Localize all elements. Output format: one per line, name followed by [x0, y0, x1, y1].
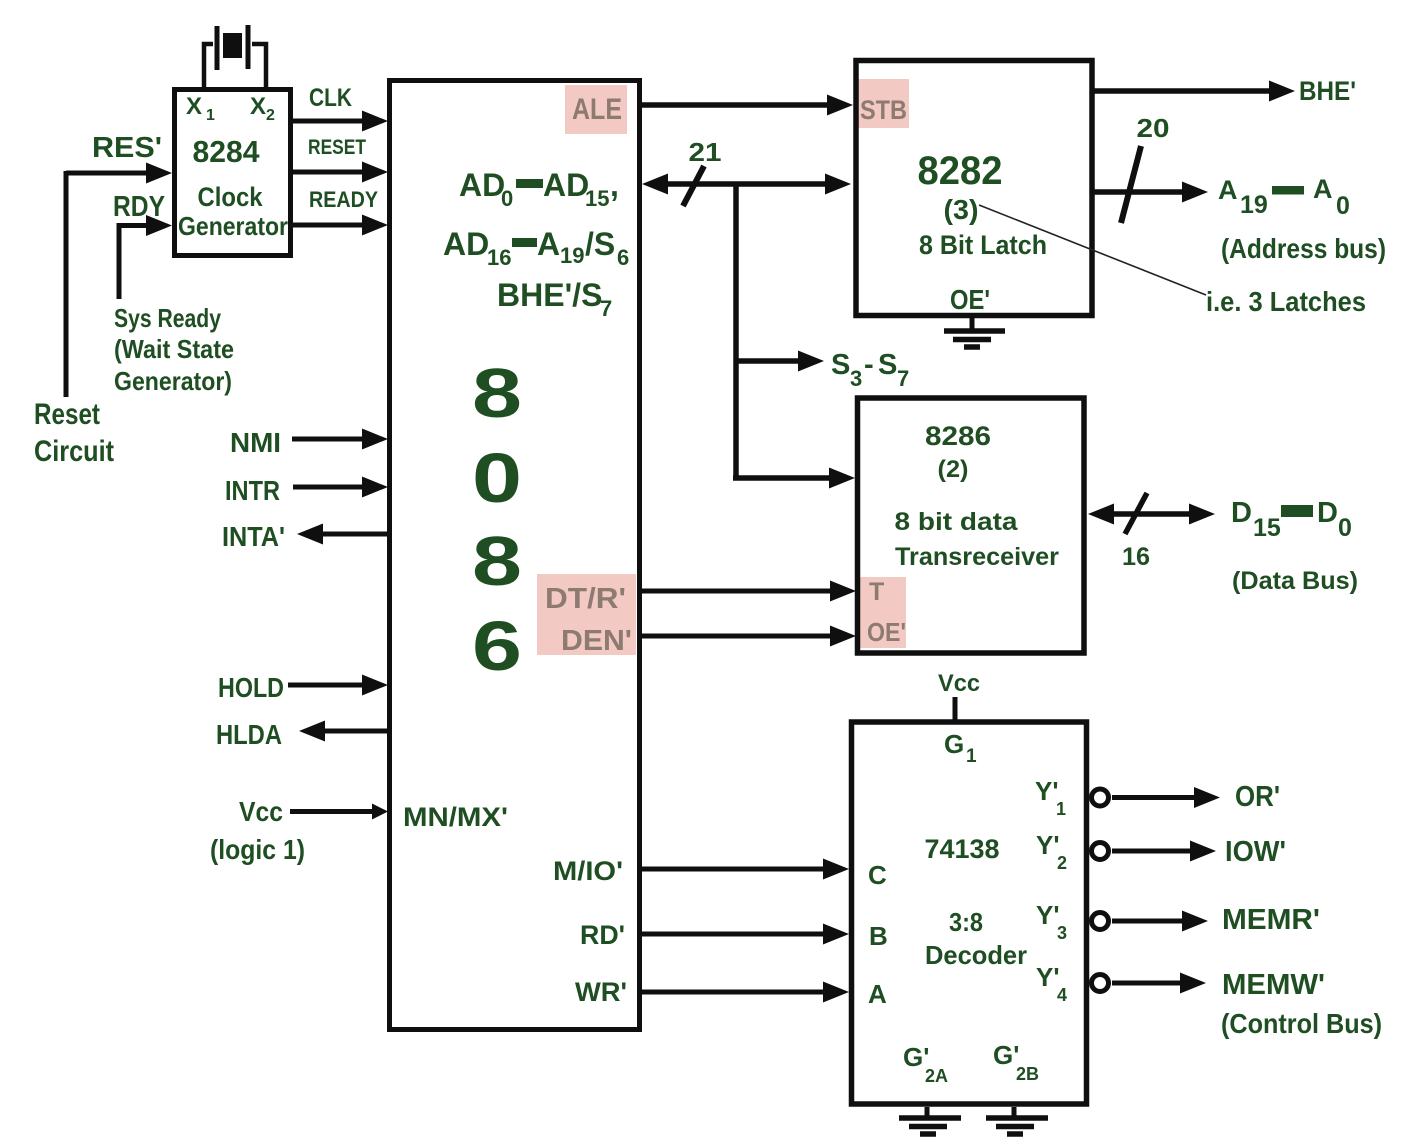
- label (Address bus): [1221, 233, 1386, 264]
- svg-text:2A: 2A: [925, 1066, 948, 1086]
- crystal Y1 right lead wire: [252, 44, 266, 89]
- pin label Y'2: [1036, 830, 1067, 873]
- bubble Y1: [1092, 789, 1109, 806]
- svg-text:OE': OE': [950, 284, 990, 315]
- svg-text:0: 0: [472, 439, 522, 517]
- label (Control Bus): [1221, 1008, 1382, 1039]
- svg-text:-: -: [864, 349, 874, 381]
- label 3:8: [949, 907, 983, 937]
- wire Y2 to IOW': [1112, 841, 1216, 862]
- svg-text:8 Bit Latch: 8 Bit Latch: [919, 230, 1047, 260]
- svg-text:3: 3: [850, 366, 862, 391]
- svg-text:7: 7: [600, 296, 612, 321]
- label digit 0: [472, 439, 522, 517]
- label digit 8b: [472, 522, 522, 600]
- svg-text:,: ,: [610, 167, 619, 203]
- svg-text:MEMW': MEMW': [1222, 969, 1325, 1001]
- label D15-D0: [1231, 497, 1352, 542]
- svg-text:RESET: RESET: [308, 136, 366, 159]
- svg-text:8282: 8282: [918, 149, 1003, 193]
- svg-text:A: A: [1313, 174, 1333, 204]
- pin label B: [869, 921, 888, 951]
- svg-text:MEMR': MEMR': [1222, 904, 1320, 936]
- wire Y4 to MEMW': [1112, 973, 1206, 994]
- bubble Y2: [1092, 843, 1109, 860]
- CPU U2 8086 box: [390, 81, 640, 1030]
- wire CLK 8284 to 8086: [291, 111, 388, 132]
- pin label INTA': [222, 521, 285, 552]
- svg-text:74138: 74138: [925, 834, 1000, 864]
- label (logic 1): [210, 834, 305, 865]
- wire AD bus 8086 to 8282: [642, 174, 851, 195]
- svg-text:(3): (3): [944, 194, 979, 225]
- svg-text:Reset: Reset: [34, 398, 100, 431]
- pin label G1: [944, 729, 977, 767]
- label Circuit: [34, 435, 114, 468]
- pin label BHE'/S7: [497, 277, 612, 321]
- svg-text:Decoder: Decoder: [925, 940, 1027, 970]
- pin label ALE: [572, 93, 622, 126]
- wire Y1 to OR': [1112, 787, 1220, 808]
- svg-text:Vcc: Vcc: [239, 796, 283, 827]
- pin label Y'4: [1036, 962, 1067, 1005]
- svg-text:Y': Y': [1035, 776, 1059, 806]
- svg-text:19: 19: [560, 243, 584, 268]
- svg-text:0: 0: [1336, 192, 1350, 220]
- pin label RESET: [308, 136, 366, 159]
- svg-text:NMI: NMI: [230, 427, 281, 458]
- svg-text:INTA': INTA': [222, 521, 285, 552]
- svg-text:DT/R': DT/R': [545, 583, 626, 615]
- svg-text:2B: 2B: [1016, 1064, 1039, 1084]
- label Sys Ready: [114, 303, 221, 333]
- svg-text:Y': Y': [1036, 830, 1060, 860]
- svg-text:RES': RES': [92, 132, 162, 164]
- svg-text:B: B: [869, 921, 888, 951]
- pin label NMI: [230, 427, 281, 458]
- wire RDY input: [119, 215, 172, 236]
- pin label DEN': [561, 625, 632, 657]
- svg-text:3:8: 3:8: [949, 907, 983, 937]
- label 8286: [925, 421, 991, 451]
- pin label READY: [309, 187, 378, 212]
- pin label OE' 8286: [867, 617, 906, 647]
- wire Vcc MN/MX: [290, 804, 388, 820]
- label 74138: [925, 834, 1000, 864]
- pin label Vcc: [239, 796, 283, 827]
- svg-text:AD: AD: [459, 167, 505, 203]
- pin label RD': [580, 920, 625, 950]
- svg-text:6: 6: [472, 607, 522, 685]
- wire Vcc to G1: [953, 697, 958, 722]
- pin label STB: [860, 95, 907, 125]
- svg-text:0: 0: [1338, 514, 1352, 542]
- wire INTR: [293, 477, 388, 498]
- svg-text:(Data Bus): (Data Bus): [1232, 567, 1358, 595]
- highlight T OE': [860, 577, 906, 648]
- highlight DT/R' DEN': [537, 574, 636, 655]
- wire ALE to STB: [641, 95, 853, 116]
- pin label X1: [186, 93, 215, 124]
- pin label G'2B: [993, 1040, 1039, 1084]
- svg-text:(Wait State: (Wait State: [114, 334, 234, 364]
- wire RES' input: [66, 163, 172, 184]
- svg-text:Y': Y': [1036, 900, 1060, 930]
- label 8 Bit Latch: [919, 230, 1047, 260]
- pin label OE' 8282: [950, 284, 990, 315]
- wire reset circuit vertical: [64, 171, 69, 397]
- wire Y3 to MEMR': [1112, 911, 1208, 932]
- svg-text:X: X: [250, 93, 266, 120]
- svg-text:ALE: ALE: [572, 93, 622, 126]
- wire INTA' output: [297, 524, 389, 545]
- pin label HLDA: [216, 719, 282, 750]
- wire S3-S7 branch: [736, 351, 824, 372]
- svg-text:8 bit data: 8 bit data: [895, 508, 1019, 536]
- svg-text:IOW': IOW': [1225, 836, 1286, 868]
- svg-text:8284: 8284: [193, 134, 261, 169]
- pin label M/IO': [553, 856, 623, 886]
- svg-text:STB: STB: [860, 95, 907, 125]
- svg-text:4: 4: [1057, 985, 1067, 1005]
- svg-text:0: 0: [501, 186, 513, 211]
- label MEMW': [1222, 969, 1325, 1001]
- wire AD vertical branch: [733, 184, 739, 478]
- label Vcc 74138: [938, 670, 980, 697]
- svg-text:(logic 1): (logic 1): [210, 834, 305, 865]
- svg-text:Transreceiver: Transreceiver: [895, 543, 1059, 571]
- svg-text:HOLD: HOLD: [218, 672, 284, 703]
- svg-text:Generator): Generator): [114, 366, 232, 396]
- svg-text:15: 15: [1253, 514, 1281, 542]
- label RDY: [113, 191, 165, 223]
- wire RD' to B: [641, 924, 849, 945]
- svg-text:3: 3: [1057, 923, 1067, 943]
- svg-text:T: T: [869, 578, 884, 606]
- bus slash 21: [683, 166, 704, 206]
- svg-text:Clock: Clock: [198, 182, 264, 212]
- svg-text:6: 6: [617, 245, 629, 270]
- ground G2A: [899, 1107, 961, 1134]
- label S3-S7: [831, 349, 909, 391]
- label OR': [1235, 781, 1280, 813]
- svg-text:D: D: [1231, 497, 1252, 529]
- svg-text:S: S: [831, 349, 850, 381]
- svg-text:MN/MX': MN/MX': [403, 802, 508, 832]
- pin label CLK: [309, 84, 352, 112]
- label Generator): [114, 366, 232, 396]
- svg-text:WR': WR': [575, 977, 627, 1007]
- crystal Y1 left plate: [215, 26, 220, 70]
- pin label A: [868, 979, 887, 1009]
- svg-text:16: 16: [1122, 543, 1150, 571]
- annotation line to (3): [979, 205, 1206, 295]
- svg-text:2: 2: [266, 107, 275, 124]
- wire D15-D0 data bus: [1088, 504, 1215, 525]
- svg-text:A: A: [537, 226, 560, 262]
- svg-text:S: S: [878, 349, 897, 381]
- pin label X2: [250, 93, 275, 124]
- svg-text:8: 8: [472, 522, 522, 600]
- label RES': [92, 132, 162, 164]
- svg-text:C: C: [868, 860, 887, 890]
- label Reset: [34, 398, 100, 431]
- pin label AD16-A19/S6: [443, 226, 629, 270]
- label Generator: [178, 211, 288, 241]
- highlight ALE: [565, 85, 627, 134]
- pin label MN/MX': [403, 802, 508, 832]
- pin label WR': [575, 977, 627, 1007]
- svg-text:15: 15: [585, 186, 609, 211]
- label Transreceiver: [895, 543, 1059, 571]
- svg-text:D: D: [1317, 497, 1338, 529]
- svg-text:21: 21: [689, 137, 722, 167]
- svg-text:BHE'/S: BHE'/S: [497, 277, 602, 313]
- ground G2B: [986, 1107, 1048, 1134]
- svg-text:INTR: INTR: [225, 475, 280, 506]
- svg-text:M/IO': M/IO': [553, 856, 623, 886]
- pin label AD0-AD15: [459, 167, 619, 211]
- svg-text:CLK: CLK: [309, 84, 352, 112]
- wire sys ready vertical: [117, 223, 122, 299]
- label Clock: [198, 182, 264, 212]
- wire BHE' output: [1092, 81, 1295, 102]
- svg-text:20: 20: [1137, 113, 1170, 143]
- pin label DT/R': [545, 583, 626, 615]
- pin label INTR: [225, 475, 280, 506]
- svg-text:2: 2: [1057, 853, 1067, 873]
- label (2): [938, 456, 969, 483]
- wire A19-A0 address bus: [1092, 182, 1208, 203]
- crystal Y1 left lead wire: [204, 44, 213, 89]
- svg-text:1: 1: [206, 107, 215, 124]
- crystal Y1 body: [223, 33, 242, 58]
- svg-text:HLDA: HLDA: [216, 719, 282, 750]
- decoder U5 74138 box: [852, 722, 1087, 1104]
- svg-text:X: X: [186, 93, 202, 120]
- pin label C: [868, 860, 887, 890]
- label 8282: [918, 149, 1003, 193]
- svg-text:DEN': DEN': [561, 625, 632, 657]
- label IOW': [1225, 836, 1286, 868]
- svg-text:Y': Y': [1036, 962, 1060, 992]
- label 21: [689, 137, 722, 167]
- svg-text:READY: READY: [309, 187, 378, 212]
- svg-text:Circuit: Circuit: [34, 435, 114, 468]
- bus slash 20: [1121, 146, 1141, 223]
- svg-text:A: A: [868, 979, 887, 1009]
- svg-text:1: 1: [966, 746, 977, 767]
- bubble Y4: [1092, 975, 1109, 992]
- bus slash 16: [1125, 493, 1147, 534]
- svg-text:RD': RD': [580, 920, 625, 950]
- label (Wait State: [114, 334, 234, 364]
- label digit 8: [472, 354, 522, 432]
- clock generator U1 8284 box: [175, 90, 291, 256]
- latch U3 8282 box: [856, 61, 1092, 316]
- svg-text:AD: AD: [443, 226, 489, 262]
- svg-text:AD: AD: [543, 167, 589, 203]
- svg-text:A: A: [1218, 175, 1238, 205]
- wire HLDA output: [299, 721, 389, 742]
- label BHE': [1299, 76, 1356, 106]
- pin label G'2A: [903, 1042, 948, 1086]
- wire RESET 8284 to 8086: [291, 162, 388, 183]
- svg-text:19: 19: [1240, 191, 1268, 219]
- svg-text:(Control Bus): (Control Bus): [1221, 1008, 1382, 1039]
- svg-text:7: 7: [897, 366, 909, 391]
- svg-text:Sys Ready: Sys Ready: [114, 303, 221, 333]
- svg-text:8: 8: [472, 354, 522, 432]
- svg-text:OE': OE': [867, 617, 906, 647]
- wire DT/R' to T: [641, 581, 856, 602]
- label 20: [1137, 113, 1170, 143]
- label 8284: [193, 134, 261, 169]
- highlight STB: [858, 79, 909, 128]
- label i.e. 3 Latches: [1206, 286, 1366, 317]
- label (3): [944, 194, 979, 225]
- label digit 6: [472, 607, 522, 685]
- wire DEN' to OE': [641, 626, 856, 647]
- crystal Y1 right plate: [246, 25, 251, 69]
- svg-text:Generator: Generator: [178, 211, 288, 241]
- label Decoder: [925, 940, 1027, 970]
- wire HOLD: [288, 675, 388, 696]
- svg-text:/S: /S: [585, 226, 615, 262]
- label 16: [1122, 543, 1150, 571]
- svg-text:OR': OR': [1235, 781, 1280, 813]
- svg-text:Vcc: Vcc: [938, 670, 980, 697]
- label 8 bit data: [895, 508, 1019, 536]
- label MEMR': [1222, 904, 1320, 936]
- svg-text:G: G: [944, 729, 964, 759]
- svg-text:RDY: RDY: [113, 191, 165, 223]
- transceiver U4 8286 box: [858, 398, 1085, 653]
- bubble Y3: [1092, 913, 1109, 930]
- ground 8282: [944, 318, 1005, 347]
- svg-text:16: 16: [487, 245, 511, 270]
- label (Data Bus): [1232, 567, 1358, 595]
- pin label Y'1: [1035, 776, 1066, 819]
- wire READY 8284 to 8086: [291, 215, 388, 236]
- wire M/IO' to C: [641, 859, 849, 880]
- wire WR' to A: [641, 982, 849, 1003]
- label A19-A0: [1218, 174, 1350, 220]
- wire AD branch to 8286: [733, 468, 855, 489]
- pin label T: [869, 578, 884, 606]
- svg-text:1: 1: [1056, 799, 1066, 819]
- pin label HOLD: [218, 672, 284, 703]
- svg-text:i.e. 3 Latches: i.e. 3 Latches: [1206, 286, 1366, 317]
- wire NMI: [292, 429, 388, 450]
- svg-text:BHE': BHE': [1299, 76, 1356, 106]
- svg-text:8286: 8286: [925, 421, 991, 451]
- svg-text:(Address bus): (Address bus): [1221, 233, 1386, 264]
- pin label Y'3: [1036, 900, 1067, 943]
- svg-text:(2): (2): [938, 456, 969, 483]
